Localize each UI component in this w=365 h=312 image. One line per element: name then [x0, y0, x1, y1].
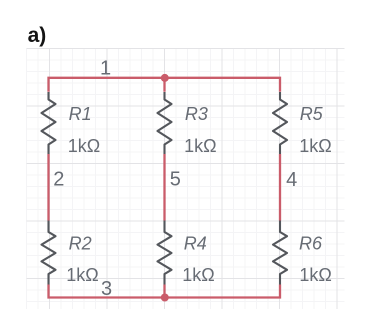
resistor R3 — [158, 92, 172, 154]
resistor R6 — [273, 221, 287, 285]
svg-text:a): a) — [28, 24, 47, 47]
svg-text:5: 5 — [170, 168, 181, 190]
svg-text:R3: R3 — [185, 104, 208, 124]
svg-text:1kΩ: 1kΩ — [182, 265, 214, 285]
wire node 4 (right column middle segment) — [279, 154, 281, 221]
svg-text:R2: R2 — [69, 233, 92, 253]
svg-text:1kΩ: 1kΩ — [66, 265, 98, 285]
svg-text:1kΩ: 1kΩ — [68, 136, 100, 156]
junction dot node 1 — [161, 74, 169, 82]
svg-text:1kΩ: 1kΩ — [299, 265, 331, 285]
junction dot node 3 — [161, 294, 169, 302]
resistor R4 — [158, 221, 172, 285]
svg-text:R6: R6 — [299, 233, 323, 253]
resistor R1 — [42, 92, 56, 154]
svg-text:3: 3 — [101, 278, 112, 300]
wire node 3 (bottom rail with stubs) — [49, 285, 281, 298]
resistor R5 — [273, 92, 287, 154]
svg-text:4: 4 — [286, 169, 297, 191]
svg-text:2: 2 — [53, 168, 64, 190]
svg-text:R1: R1 — [69, 104, 92, 124]
svg-text:R4: R4 — [184, 233, 207, 253]
svg-text:R5: R5 — [300, 104, 324, 124]
svg-text:1kΩ: 1kΩ — [184, 136, 216, 156]
svg-text:1kΩ: 1kΩ — [299, 136, 331, 156]
wire node 1 (top rail with stubs) — [49, 78, 281, 92]
svg-text:1: 1 — [100, 58, 111, 80]
resistor R2 — [42, 221, 56, 285]
wire node 5 (middle column middle segment) — [163, 154, 165, 221]
wire node 2 (left column middle segment) — [47, 154, 49, 221]
